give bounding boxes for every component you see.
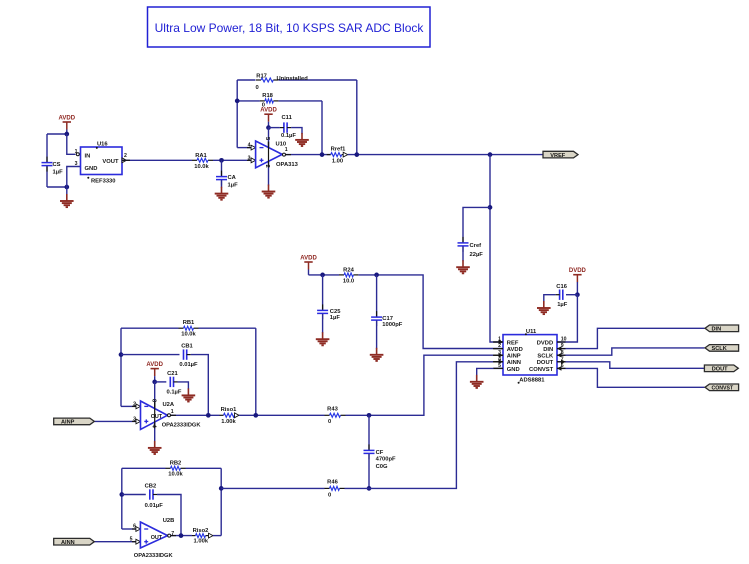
arrow SCLK pin overlay — [557, 353, 562, 357]
op-amp U2B OPA2333IDGK — [140, 522, 167, 548]
wire RA1 to U10 pin 3 — [213, 159, 251, 161]
wire RB2 right vertical — [220, 468, 222, 535]
svg-text:0.01µF: 0.01µF — [145, 503, 164, 509]
wire AVDD row to R24 — [309, 274, 340, 276]
pin 1 circle U2A — [168, 414, 171, 417]
svg-text:C25: C25 — [330, 309, 341, 315]
wire U10 pin 2 to ground — [268, 161, 270, 185]
svg-text:Uninstalled: Uninstalled — [277, 76, 309, 82]
svg-text:3: 3 — [248, 155, 251, 161]
svg-text:CONVST: CONVST — [712, 386, 734, 392]
svg-text:ADS8881: ADS8881 — [519, 377, 545, 383]
svg-text:AINN: AINN — [61, 540, 75, 546]
pin 6 CONVST U11 — [557, 367, 563, 369]
svg-text:U11: U11 — [526, 329, 537, 335]
wire RB2 left vertical — [121, 468, 123, 529]
svg-text:AVDD: AVDD — [300, 255, 317, 261]
svg-text:AVDD: AVDD — [59, 115, 76, 121]
wire DOUT net — [557, 362, 704, 369]
wire AINP port to U2A pin 3 — [94, 420, 136, 422]
title block — [148, 7, 431, 47]
wire U10 pin 4 input — [237, 147, 251, 149]
capacitor CB1 0.01uF — [121, 354, 180, 356]
svg-text:CS: CS — [53, 162, 61, 168]
resistor RA1 10.0k — [192, 159, 197, 161]
junction RB2/R46 — [219, 486, 224, 491]
svg-text:AVDD: AVDD — [146, 362, 163, 368]
wire R43 to U11 AINP pin — [346, 355, 503, 415]
wire U2A pin 4 to ground — [154, 422, 156, 442]
arrow AINP pin — [499, 353, 504, 357]
junction AVDD/C11 — [266, 125, 271, 130]
wire U16 VOUT to RA1 — [122, 159, 192, 161]
wire AVDD to node (U2A) — [154, 376, 156, 382]
resistor Rref1 1.00 — [327, 154, 331, 156]
wire DVDD node to U11 DVDD pin — [557, 295, 577, 342]
junction RB1/R43 — [253, 413, 258, 418]
svg-text:RA1: RA1 — [195, 153, 207, 159]
svg-text:C11: C11 — [282, 115, 293, 121]
svg-text:Riso1: Riso1 — [221, 407, 238, 413]
svg-text:CB2: CB2 — [145, 484, 157, 490]
resistor R18 0 — [237, 100, 260, 102]
svg-text:4: 4 — [151, 425, 157, 429]
port DOUT — [704, 365, 738, 372]
ground (C16) — [537, 301, 551, 314]
arrow CONVST pin — [557, 366, 562, 370]
svg-text:4: 4 — [248, 142, 251, 148]
svg-text:Riso2: Riso2 — [193, 528, 209, 534]
junction AVDD/C21 — [152, 380, 157, 385]
port VREF — [543, 151, 578, 158]
wire node to R46 — [221, 487, 324, 489]
op-amp U2A OPA2333IDGK — [141, 401, 168, 429]
svg-text:OUT: OUT — [151, 414, 163, 420]
svg-text:VOUT: VOUT — [102, 159, 119, 165]
pin 1 circle U16 — [76, 153, 79, 156]
svg-text:U2A: U2A — [163, 402, 175, 408]
arrow AINP pin overlay — [499, 353, 504, 357]
capacitor C11 0.1uF — [269, 127, 280, 129]
svg-text:1.00: 1.00 — [332, 158, 343, 164]
svg-text:OPA2333IDGK: OPA2333IDGK — [134, 553, 174, 559]
svg-text:AINP: AINP — [507, 354, 521, 360]
pin 7 DOUT U11 — [557, 361, 563, 363]
wire AINN port to U2B pin 5 — [94, 541, 136, 543]
wire DIN net — [557, 328, 705, 348]
svg-text:R17: R17 — [256, 74, 267, 80]
junction VREF/REF branch — [488, 152, 493, 157]
wire CB1 to output node — [191, 355, 209, 416]
wire node to ground — [66, 187, 68, 194]
arrow REF pin — [499, 340, 504, 344]
resistor R43 0 — [325, 414, 330, 416]
wire U2A pin 8 supply — [154, 382, 156, 408]
pin 1 REF U11 — [493, 341, 503, 343]
svg-text:1µF: 1µF — [557, 302, 568, 308]
svg-text:C21: C21 — [167, 371, 178, 377]
port DIN — [705, 325, 739, 332]
svg-text:SCLK: SCLK — [712, 346, 727, 352]
op-amp U10 OPA313 — [256, 141, 283, 168]
svg-text:0.1µF: 0.1µF — [167, 389, 182, 395]
svg-text:6: 6 — [133, 524, 136, 530]
arrow DIN pin overlay — [557, 346, 562, 350]
svg-text:Cref: Cref — [470, 243, 482, 249]
voltage reference U16 REF3330 — [81, 147, 123, 175]
svg-text:C0G: C0G — [376, 464, 388, 470]
junction R18/output — [320, 152, 325, 157]
svg-text:3: 3 — [75, 161, 78, 167]
svg-text:SCLK: SCLK — [537, 354, 554, 360]
svg-text:Ultra Low Power, 18 Bit, 10 KS: Ultra Low Power, 18 Bit, 10 KSPS SAR ADC… — [155, 21, 425, 35]
svg-text:Rref1: Rref1 — [331, 146, 347, 152]
wire R46 to U11 AINN pin — [345, 362, 503, 489]
arrow DOUT pin — [561, 360, 566, 364]
capacitor C16 1uF — [566, 294, 577, 296]
ground (REF3330) — [60, 194, 74, 207]
wire U2A output to Riso1 — [171, 414, 220, 416]
svg-text:2: 2 — [264, 165, 270, 168]
svg-text:CONVST: CONVST — [529, 367, 554, 373]
port SCLK — [705, 345, 739, 352]
pin 4 AINN U11 — [493, 361, 503, 363]
capacitor C17 1000pF — [376, 275, 378, 317]
wire VREF node to U11 REF pin — [490, 155, 503, 342]
ground (U10) — [262, 185, 276, 198]
svg-text:GND: GND — [507, 367, 520, 373]
wire U2A pin 2 input — [121, 405, 136, 407]
power AVDD (U10) — [260, 108, 277, 122]
svg-text:AINN: AINN — [507, 360, 521, 366]
svg-text:R46: R46 — [327, 480, 338, 486]
svg-text:CB1: CB1 — [181, 344, 193, 350]
junction CB2 left — [119, 492, 124, 497]
wire U2B output to Riso2 — [171, 535, 192, 537]
wire U10 output to Rref1 — [286, 154, 331, 156]
svg-text:10.0k: 10.0k — [168, 472, 183, 478]
ground (U11) — [470, 375, 484, 388]
pin 3 AINP U11 — [493, 354, 503, 356]
pin stub overlays U11 — [494, 341, 504, 343]
ground (CA) — [215, 187, 229, 200]
pin 1 circle U10 — [283, 153, 286, 156]
junction C17 — [374, 273, 379, 278]
svg-text:10.0k: 10.0k — [181, 332, 196, 338]
junction CF bottom — [367, 486, 372, 491]
svg-text:OUT: OUT — [151, 535, 163, 541]
svg-text:DOUT: DOUT — [712, 367, 728, 373]
svg-text:8: 8 — [151, 399, 157, 403]
svg-text:1.00k: 1.00k — [194, 539, 209, 545]
power AVDD (R24) — [300, 255, 317, 269]
svg-text:CF: CF — [376, 450, 384, 456]
svg-text:U2B: U2B — [163, 518, 175, 524]
junction CF top — [367, 413, 372, 418]
svg-text:3: 3 — [133, 416, 136, 422]
capacitor C25 1uF — [322, 275, 324, 311]
svg-text:10.0k: 10.0k — [194, 164, 209, 170]
arrow SCLK pin — [557, 353, 562, 357]
junction node GND/CS — [64, 185, 69, 190]
svg-text:CA: CA — [228, 175, 237, 181]
svg-text:DVDD: DVDD — [537, 340, 553, 346]
resistor Riso2 1.00k — [192, 535, 196, 537]
svg-text:1.00k: 1.00k — [221, 419, 236, 425]
wire RB1 left vertical — [120, 328, 122, 406]
svg-text:DOUT: DOUT — [537, 360, 554, 366]
svg-text:R18: R18 — [262, 93, 273, 99]
svg-text:1µF: 1µF — [53, 170, 64, 176]
power AVDD (REF3330) — [59, 115, 76, 129]
svg-text:0.1µF: 0.1µF — [281, 133, 296, 139]
capacitor CA 1uF — [221, 160, 223, 176]
arrow AINN pin — [499, 360, 504, 364]
wire RB1 right vertical — [255, 328, 257, 415]
svg-text:DIN: DIN — [712, 327, 722, 333]
junction RA1/CA — [219, 158, 224, 163]
junction CB1 left — [119, 352, 124, 357]
svg-text:DVDD: DVDD — [569, 268, 587, 274]
capacitor CB2 0.01uF — [122, 494, 146, 496]
svg-text:1000pF: 1000pF — [382, 322, 402, 328]
ground (U2A) — [148, 441, 162, 454]
svg-text:R24: R24 — [343, 267, 354, 273]
arrow AINN pin overlay — [499, 360, 504, 364]
arrow DOUT pin overlay — [561, 360, 566, 364]
wire CB2 to output node — [157, 495, 181, 536]
svg-text:REF: REF — [507, 340, 519, 346]
ground (Cref) — [456, 260, 470, 273]
wire Riso2 to RB2 node — [213, 535, 221, 537]
capacitor CF 4700pF C0G — [368, 415, 370, 450]
svg-text:1µF: 1µF — [330, 315, 341, 321]
wire AVDD to node (U10) — [268, 122, 270, 128]
svg-text:10.0: 10.0 — [343, 278, 354, 284]
pin 10 DVDD U11 — [557, 341, 563, 343]
junction Cref branch — [488, 205, 493, 210]
svg-text:2: 2 — [133, 401, 136, 407]
wire AVDD to node — [66, 130, 68, 135]
junction CB1/output — [206, 413, 211, 418]
resistor R46 0 — [325, 487, 330, 489]
port AINN — [54, 538, 95, 545]
resistor RB2 10.0k — [122, 467, 166, 469]
svg-text:AINP: AINP — [61, 420, 75, 426]
svg-text:1: 1 — [285, 147, 288, 153]
wire U11 GND pin to ground — [477, 368, 503, 375]
pin 5 GND U11 — [493, 367, 503, 369]
arrow CONVST pin overlay — [557, 366, 562, 370]
wire R24 to U11 AVDD pin — [358, 275, 502, 349]
wire U16 pin 3 to node — [67, 167, 81, 188]
power DVDD — [569, 268, 587, 282]
ground (C17) — [370, 348, 384, 361]
svg-text:DIN: DIN — [543, 347, 553, 353]
junction C25 — [320, 273, 325, 278]
svg-text:1: 1 — [75, 149, 78, 155]
junction R17/R18 left — [235, 99, 240, 104]
svg-text:4700pF: 4700pF — [376, 456, 396, 462]
svg-text:C16: C16 — [556, 284, 567, 290]
wire AVDD stem to R24 row — [308, 270, 310, 275]
port CONVST — [705, 384, 739, 391]
wire DVDD to node — [576, 282, 578, 295]
svg-text:1µF: 1µF — [228, 182, 239, 188]
resistor R17 0 Uninstalled — [237, 79, 255, 81]
wire U2B pin 6 input — [122, 528, 136, 530]
svg-text:0: 0 — [328, 492, 331, 498]
junction DVDD/C16 — [575, 292, 580, 297]
svg-text:5: 5 — [130, 536, 133, 542]
svg-text:OPA313: OPA313 — [276, 162, 299, 168]
wire Rref1 to VREF port — [348, 154, 543, 156]
junction node AVDD/CS — [64, 132, 69, 137]
svg-text:0: 0 — [328, 419, 331, 425]
svg-text:REF3330: REF3330 — [91, 178, 116, 184]
svg-text:0.01µF: 0.01µF — [179, 362, 198, 368]
ground (C21) — [182, 388, 196, 401]
arrow DIN pin — [557, 346, 562, 350]
wire R17 right vertical — [356, 80, 358, 155]
svg-text:5: 5 — [264, 137, 270, 141]
svg-text:1: 1 — [171, 409, 174, 415]
wire node to CS branch — [47, 133, 67, 135]
ground (C11) — [295, 133, 309, 146]
junction CB2/output — [179, 533, 184, 538]
arrow REF pin overlay — [499, 340, 504, 344]
wire node to U16 pin 1 — [67, 134, 76, 154]
svg-text:VREF: VREF — [550, 153, 566, 159]
svg-text:R43: R43 — [327, 407, 338, 413]
svg-text:U16: U16 — [97, 141, 108, 147]
wire Riso1 to R43 — [239, 414, 325, 416]
capacitor C21 0.1uF — [155, 381, 167, 383]
svg-text:AVDD: AVDD — [260, 108, 277, 114]
resistor Riso1 1.00k — [220, 414, 224, 416]
junction R17/output — [354, 152, 359, 157]
svg-text:22µF: 22µF — [470, 252, 484, 258]
wire SCLK net — [557, 348, 705, 355]
svg-text:2: 2 — [124, 153, 127, 159]
wire R17 left vertical — [236, 80, 238, 148]
svg-text:0: 0 — [256, 85, 259, 91]
resistor R24 10.0 — [339, 274, 344, 276]
wire R18 right vertical — [321, 101, 323, 155]
svg-text:RB1: RB1 — [183, 320, 195, 326]
port AINP — [54, 418, 95, 425]
wire CONVST net — [557, 368, 705, 387]
resistor RB1 10.0k — [121, 327, 179, 329]
wire Cref branch — [463, 207, 490, 243]
svg-text:RB2: RB2 — [170, 460, 182, 466]
wire U10 pin 5 supply — [268, 128, 270, 148]
power AVDD (U2A) — [146, 362, 163, 376]
pin 9 DIN U11 — [557, 348, 563, 350]
svg-text:IN: IN — [85, 153, 91, 159]
capacitor CS — [46, 134, 48, 163]
svg-text:AVDD: AVDD — [507, 347, 523, 353]
wire CS bottom to node — [47, 186, 67, 188]
capacitor Cref 22uF — [462, 237, 464, 243]
pin 7 circle U2B — [168, 534, 171, 537]
adc U11 ADS8881 — [503, 335, 557, 375]
ground (C25) — [316, 332, 330, 345]
svg-text:GND: GND — [85, 166, 98, 172]
pin 2 AVDD U11 — [493, 348, 503, 350]
pin 8 SCLK U11 — [557, 354, 563, 356]
svg-text:OPA2333IDGK: OPA2333IDGK — [162, 422, 202, 428]
